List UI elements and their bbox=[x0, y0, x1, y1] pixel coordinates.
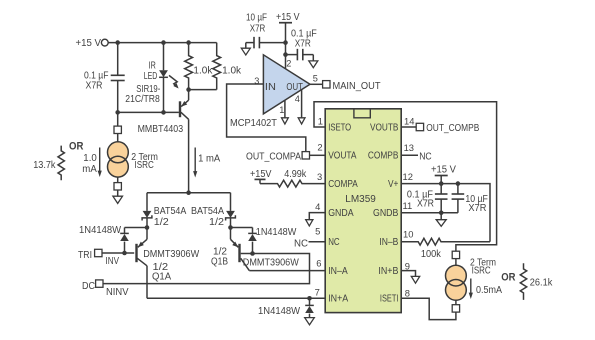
wire U1 pin13 NC stub bbox=[401, 151, 432, 162]
svg-text:V+: V+ bbox=[388, 179, 399, 190]
terminal OUT_COMPA bbox=[246, 152, 325, 163]
ground at D6 bbox=[305, 318, 315, 325]
svg-text:IN: IN bbox=[265, 82, 276, 93]
ground U2 pin 4 bbox=[298, 90, 305, 124]
svg-text:DMMT3906W: DMMT3906W bbox=[243, 258, 300, 269]
svg-text:X7R: X7R bbox=[295, 39, 311, 50]
ground U2 pin 1 bbox=[282, 100, 289, 124]
svg-text:Q1B: Q1B bbox=[211, 257, 228, 268]
junction V+ / C5 bbox=[456, 181, 461, 186]
terminal MAIN_OUT bbox=[310, 81, 381, 93]
svg-text:mA: mA bbox=[82, 164, 97, 175]
svg-text:26.1k: 26.1k bbox=[530, 277, 553, 288]
wire emitter node to D5 bbox=[231, 227, 253, 229]
transistor Q1B DMMT3906W (1/2) bbox=[211, 228, 299, 271]
svg-text:OUT: OUT bbox=[286, 82, 303, 93]
svg-text:+15 V: +15 V bbox=[76, 38, 102, 49]
ground at I1 bbox=[113, 196, 123, 203]
junction +15V / C2 bbox=[283, 40, 288, 45]
U1 pin names bbox=[328, 122, 398, 304]
svg-text:5: 5 bbox=[315, 225, 320, 236]
svg-text:13.7k: 13.7k bbox=[33, 160, 55, 171]
wire emitter node to D4 bbox=[125, 227, 148, 229]
svg-text:3: 3 bbox=[317, 171, 322, 182]
svg-text:1.0k: 1.0k bbox=[222, 65, 241, 76]
wire GNDB row bbox=[401, 212, 458, 214]
svg-text:GNDB: GNDB bbox=[373, 208, 398, 219]
junction right emitter node bbox=[228, 225, 233, 230]
capacitor C4 0.1uF X7R bbox=[407, 184, 448, 213]
wire V+ row to 100k bbox=[401, 184, 490, 242]
svg-text:GNDA: GNDA bbox=[328, 208, 354, 219]
svg-text:12: 12 bbox=[403, 171, 413, 182]
capacitor C3 0.1uF X7R bbox=[286, 28, 317, 61]
junction Q1A base node bbox=[122, 251, 127, 256]
junction +15V / C3 bbox=[283, 52, 288, 57]
svg-text:6: 6 bbox=[316, 258, 321, 269]
power +15V (driver) bbox=[276, 12, 300, 69]
ground GNDA bbox=[306, 220, 313, 226]
resistor R4 4.99k bbox=[260, 169, 325, 187]
svg-text:OUT_COMPB: OUT_COMPB bbox=[426, 123, 479, 134]
svg-text:INV: INV bbox=[106, 256, 120, 267]
op-amp U1 LM359 body bbox=[325, 109, 401, 313]
svg-text:MCP1402T: MCP1402T bbox=[230, 118, 277, 129]
svg-text:10 µF: 10 µF bbox=[246, 13, 267, 24]
wire Q1A collector to pin 7 bbox=[147, 297, 325, 299]
junction Q1B base node bbox=[250, 251, 255, 256]
svg-text:IN+B: IN+B bbox=[378, 266, 398, 277]
svg-text:DC: DC bbox=[82, 281, 95, 292]
diode D5 1N4148W bbox=[248, 227, 297, 253]
label OR (left) bbox=[69, 140, 83, 152]
svg-text:1.0: 1.0 bbox=[83, 153, 97, 164]
svg-text:LM359: LM359 bbox=[345, 194, 376, 205]
ground IN+B bbox=[411, 276, 419, 283]
svg-text:IN–B: IN–B bbox=[379, 237, 398, 248]
junction diode rail / Q2 collector bbox=[186, 190, 191, 195]
svg-text:ISETI: ISETI bbox=[380, 294, 399, 305]
junction base rail / LED cathode bbox=[161, 110, 166, 115]
resistor R1 1.0k bbox=[185, 43, 213, 90]
svg-text:+15V: +15V bbox=[250, 169, 272, 180]
svg-text:7: 7 bbox=[315, 286, 320, 297]
svg-text:2: 2 bbox=[317, 141, 322, 152]
svg-text:+15 V: +15 V bbox=[276, 12, 300, 23]
wire U1 pin9 to ground bbox=[401, 271, 415, 277]
op-amp U2 MCP1402T buffer bbox=[230, 55, 318, 129]
wire Q1B collector to pin 6 bbox=[249, 270, 325, 272]
svg-text:X7R: X7R bbox=[417, 198, 434, 209]
svg-text:8: 8 bbox=[405, 287, 410, 298]
svg-text:COMPA: COMPA bbox=[328, 179, 358, 190]
svg-text:MAIN_OUT: MAIN_OUT bbox=[333, 81, 381, 92]
capacitor C2 10uF X7R bbox=[246, 13, 286, 49]
svg-text:NC: NC bbox=[328, 237, 339, 248]
terminal DC input bbox=[82, 280, 129, 298]
svg-text:1 mA: 1 mA bbox=[198, 154, 221, 165]
svg-text:4.99k: 4.99k bbox=[284, 169, 306, 180]
svg-text:1.0k: 1.0k bbox=[193, 65, 212, 76]
svg-text:9: 9 bbox=[405, 260, 410, 271]
svg-text:OR: OR bbox=[501, 271, 515, 283]
svg-text:1/2: 1/2 bbox=[154, 217, 169, 228]
svg-text:IN+A: IN+A bbox=[328, 294, 348, 305]
current source I2 2-Term ISRC bbox=[446, 251, 497, 312]
diode D4 1N4148W bbox=[79, 225, 129, 253]
current annotation 0.5mA bbox=[469, 279, 503, 300]
svg-text:BAT54A: BAT54A bbox=[191, 206, 224, 217]
junction base rail / C1 bottom bbox=[115, 110, 120, 115]
svg-text:1: 1 bbox=[279, 105, 284, 115]
junction top rail / LED D1 bbox=[161, 40, 166, 45]
diode D2 BAT54A (1/2) bbox=[142, 193, 187, 229]
svg-text:ISRC: ISRC bbox=[135, 160, 154, 171]
svg-text:4: 4 bbox=[315, 201, 320, 212]
node +15V supply (left) bbox=[76, 38, 109, 49]
svg-text:2: 2 bbox=[286, 58, 291, 68]
svg-text:OUT_COMPA: OUT_COMPA bbox=[246, 152, 301, 163]
svg-text:VOUTB: VOUTB bbox=[370, 122, 398, 133]
svg-text:X7R: X7R bbox=[86, 81, 103, 92]
svg-text:1: 1 bbox=[318, 116, 323, 127]
junction left emitter node bbox=[145, 225, 150, 230]
wire base rail bbox=[118, 111, 179, 113]
svg-text:0.5mA: 0.5mA bbox=[476, 285, 502, 296]
resistor R6 26.1k (alternative) bbox=[520, 263, 552, 300]
svg-text:VOUTA: VOUTA bbox=[328, 151, 357, 162]
current source I1 2-Term ISRC bbox=[108, 112, 158, 196]
svg-text:LED: LED bbox=[144, 71, 158, 82]
power +15V (COMPA) bbox=[250, 169, 272, 184]
ground at C2 bbox=[241, 48, 250, 55]
capacitor C1 0.1uF X7R bbox=[84, 43, 125, 113]
svg-text:BAT54A: BAT54A bbox=[154, 206, 187, 217]
junction top rail / R1 bbox=[186, 40, 191, 45]
diode D6 1N4148W bbox=[258, 298, 314, 317]
wire U1 pin4 GNDA to ground bbox=[309, 213, 325, 220]
label OR (right) bbox=[501, 271, 515, 283]
svg-text:ISETO: ISETO bbox=[328, 122, 351, 133]
svg-text:1N4148W: 1N4148W bbox=[258, 306, 301, 317]
svg-text:1/2: 1/2 bbox=[209, 217, 224, 228]
ground at C3 bbox=[309, 61, 318, 68]
wire ISETI to I2 bbox=[401, 298, 456, 319]
current annotation 1 mA bbox=[193, 148, 221, 178]
transistor Q1A DMMT3906W (1/2) bbox=[137, 228, 200, 283]
svg-text:Q1A: Q1A bbox=[152, 271, 172, 282]
terminal OUT_COMPB bbox=[401, 123, 479, 134]
wire U1 pin5 NC stub bbox=[294, 238, 325, 249]
svg-text:IN–A: IN–A bbox=[328, 266, 348, 277]
ground GNDB bbox=[436, 213, 446, 227]
current annotation 1.0 mA bbox=[82, 148, 102, 178]
svg-text:ISRC: ISRC bbox=[472, 265, 491, 276]
svg-text:X7R: X7R bbox=[468, 203, 486, 214]
svg-text:IR: IR bbox=[149, 61, 156, 72]
LED D1 IR SIR19-21C/TR8 bbox=[125, 43, 178, 113]
svg-text:21C/TR8: 21C/TR8 bbox=[125, 94, 160, 105]
svg-text:X7R: X7R bbox=[250, 23, 265, 34]
power +15V (right) bbox=[431, 165, 456, 184]
wire IN node (VOUTA to IN) bbox=[227, 84, 306, 152]
svg-text:NINV: NINV bbox=[106, 287, 129, 298]
svg-text:NC: NC bbox=[294, 238, 308, 249]
svg-text:14: 14 bbox=[404, 116, 414, 127]
svg-text:TRI: TRI bbox=[78, 250, 92, 261]
svg-text:NC: NC bbox=[419, 151, 432, 162]
junction emitter node Q2 bbox=[186, 87, 191, 92]
wire +15V top rail bbox=[108, 42, 217, 44]
U1 pin numbers bbox=[315, 116, 415, 299]
svg-text:5: 5 bbox=[313, 74, 318, 84]
wire Q2 collector bbox=[188, 119, 190, 192]
svg-text:MMBT4403: MMBT4403 bbox=[138, 124, 184, 135]
diode D3 BAT54A (1/2) bbox=[191, 193, 235, 229]
junction pin7 / D6 bbox=[307, 296, 312, 301]
svg-text:OR: OR bbox=[69, 140, 83, 152]
svg-text:+15 V: +15 V bbox=[431, 165, 456, 176]
svg-text:13: 13 bbox=[404, 142, 414, 153]
svg-text:1N4148W: 1N4148W bbox=[256, 227, 297, 238]
terminal TRI input bbox=[78, 249, 134, 267]
resistor R5 100k bbox=[401, 238, 490, 260]
svg-text:1N4148W: 1N4148W bbox=[79, 225, 122, 236]
wire diode rail bbox=[147, 192, 231, 194]
svg-text:10: 10 bbox=[403, 229, 413, 240]
svg-text:100k: 100k bbox=[421, 249, 441, 260]
capacitor C5 10uF X7R bbox=[452, 184, 488, 215]
svg-text:DMMT3906W: DMMT3906W bbox=[143, 249, 200, 260]
resistor R2 1.0k bbox=[189, 43, 242, 90]
wire ISETO loop bbox=[314, 102, 497, 251]
svg-text:COMPB: COMPB bbox=[368, 151, 399, 162]
junction V+ / C4 bbox=[439, 181, 444, 186]
svg-text:11: 11 bbox=[403, 200, 413, 211]
svg-text:4: 4 bbox=[295, 94, 300, 104]
transistor Q2 MMBT4403 bbox=[138, 90, 189, 136]
wire Q1A collector down bbox=[146, 266, 148, 299]
junction top rail / C1 bbox=[115, 40, 120, 45]
resistor R3 13.7k (alternative) bbox=[33, 146, 64, 181]
junction GNDB / C4 bbox=[439, 211, 444, 216]
wire NINV to Q1B base bbox=[103, 254, 310, 284]
